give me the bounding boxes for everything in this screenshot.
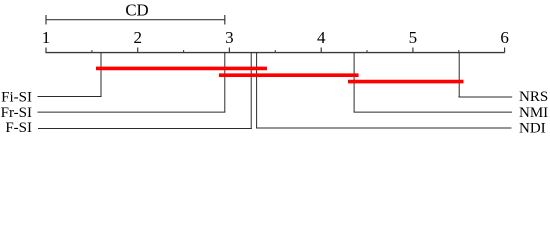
CD bracket line [46,19,226,21]
svg-text:6: 6 [500,28,509,47]
NMI horizontal [354,111,513,113]
minor tick 3.5 [274,50,276,52]
NDI horizontal [256,127,512,129]
Fi-SI horizontal [38,96,102,98]
major tick 5 [412,48,414,53]
NDI vertical [256,52,258,128]
major tick 1 [45,48,47,53]
minor tick 5.5 [458,50,460,52]
axis line [45,52,504,54]
F-SI vertical [250,52,252,129]
svg-text:NDI: NDI [519,120,546,136]
NMI vertical [353,52,355,112]
CD bracket right tick [224,15,226,25]
NRS vertical [458,52,460,97]
major tick 2 [137,48,139,53]
major tick 6 [504,48,506,53]
svg-text:4: 4 [317,28,326,47]
F-SI horizontal [38,127,252,129]
minor tick 1.5 [91,50,93,52]
major tick 4 [320,48,322,53]
svg-text:Fr-SI: Fr-SI [1,105,32,121]
Fi-SI vertical [100,52,102,96]
red clique bar 1 [96,67,267,71]
Fr-SI vertical [224,52,226,112]
red clique bar 3 [348,80,464,84]
major tick 3 [228,48,230,53]
svg-text:2: 2 [133,28,142,47]
svg-text:NRS: NRS [519,89,548,105]
CD bracket left tick [45,15,47,25]
svg-text:3: 3 [225,28,234,47]
Fr-SI horizontal [38,111,226,113]
NRS horizontal [458,96,512,98]
svg-text:Fi-SI: Fi-SI [1,90,32,106]
minor tick 2.5 [183,50,185,52]
svg-text:F-SI: F-SI [5,120,32,136]
svg-text:NMI: NMI [519,105,548,121]
svg-text:1: 1 [42,28,51,47]
svg-text:CD: CD [125,1,148,20]
svg-text:5: 5 [409,28,418,47]
red clique bar 2 [219,73,359,77]
minor tick 4.5 [366,50,368,52]
